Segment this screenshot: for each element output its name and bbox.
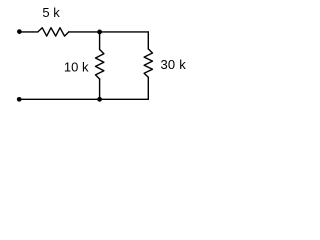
- terminal dot top-left: [17, 29, 22, 34]
- wire middle branch upper: [99, 32, 101, 50]
- svg-text:30 k: 30 k: [161, 57, 187, 72]
- resistor R1 5 k (horizontal zigzag): [38, 28, 69, 36]
- wire top-left segment: [19, 31, 38, 33]
- svg-text:5 k: 5 k: [42, 5, 60, 20]
- wire top-right segment: [69, 31, 149, 33]
- terminal dot bottom-left: [17, 97, 22, 102]
- svg-text:10 k: 10 k: [64, 59, 89, 74]
- wire bottom: [19, 98, 148, 100]
- junction node top (middle branch): [97, 30, 102, 35]
- wire right branch lower: [147, 77, 149, 99]
- resistor R2 10 k (vertical zigzag): [96, 50, 104, 80]
- junction node bottom (middle branch): [97, 97, 102, 102]
- wire right branch upper: [147, 32, 149, 49]
- wire middle branch lower: [99, 79, 101, 99]
- resistor R3 30 k (vertical zigzag): [144, 49, 152, 77]
